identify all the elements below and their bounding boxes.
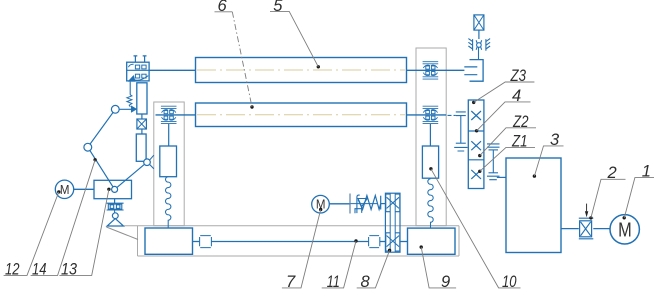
lever link upper: [115, 108, 131, 110]
motor 7 shaft: [329, 203, 350, 205]
svg-text:Z2: Z2: [512, 113, 528, 131]
svg-text:M: M: [618, 220, 632, 242]
rod from hook: [129, 82, 131, 95]
fixed support triangle: [107, 219, 123, 226]
spring to element 10: [428, 179, 433, 228]
svg-text:M: M: [60, 183, 70, 197]
stem under crank box: [114, 199, 116, 204]
hinged support: [468, 39, 490, 51]
joint circle lower: [84, 143, 92, 151]
motor 12: [55, 180, 73, 198]
bearing roller 5 right: [423, 62, 439, 79]
input arrow: [586, 204, 588, 212]
svg-text:7: 7: [286, 273, 296, 291]
motor 1: [610, 215, 639, 244]
svg-text:5: 5: [273, 0, 283, 15]
shaft box3 to coupling: [561, 228, 579, 230]
svg-text:14: 14: [32, 261, 47, 279]
frame: diagonal brace: [106, 227, 138, 240]
damper plates: [464, 67, 477, 75]
leader dots: [57, 65, 626, 252]
clutch spring zigzag: [358, 196, 381, 210]
spring small zigzag: [127, 95, 132, 107]
shaft roller 6 left: [156, 114, 196, 116]
gear block 4: [468, 100, 484, 189]
svg-text:10: 10: [502, 273, 517, 291]
shaft stub: [193, 241, 200, 243]
shaft roller 5 left: [149, 69, 196, 71]
clutch disc bar: [349, 194, 351, 214]
damper bracket: [470, 60, 484, 82]
screw column 8: [385, 193, 400, 252]
link arm upper: [88, 109, 116, 147]
box 9: [408, 228, 456, 254]
spring left vertical: [166, 177, 171, 228]
hanger rod right: [429, 124, 431, 146]
coupling 11: [369, 236, 380, 248]
hanger rod left: [168, 124, 170, 146]
gearbox lower left: [145, 228, 193, 254]
pivot ball: [477, 43, 482, 48]
svg-text:Z3: Z3: [510, 67, 527, 85]
rod lower rect: [136, 134, 146, 161]
friction cone: [358, 199, 367, 213]
link rod-to-crank: [115, 162, 147, 189]
link arm lower: [88, 147, 115, 189]
svg-text:11: 11: [327, 273, 340, 291]
rod to damper: [478, 47, 480, 59]
shaft roller 6 right: [407, 114, 447, 116]
shaft coupling to motor 1: [593, 228, 610, 230]
clutch end bar: [380, 196, 382, 210]
bearing block left of roller 5: [127, 62, 149, 81]
frame: left column: [154, 102, 184, 226]
shaft to box 9: [400, 241, 408, 243]
svg-text:Z1: Z1: [511, 132, 527, 150]
hook wedge under block: [128, 75, 135, 81]
pivot circle rod bottom: [144, 159, 151, 166]
motor 12 shaft: [74, 188, 94, 190]
shaft into box 3: [497, 176, 506, 178]
element 10: [422, 146, 438, 178]
thrust bearing: [107, 203, 124, 213]
gear mesh symbol right: [487, 144, 500, 180]
centerline roller 6: [197, 114, 405, 116]
rod guide rect: [137, 83, 147, 114]
clutch bracket: [357, 195, 360, 213]
pivot fork to frame: [150, 155, 154, 169]
svg-text:12: 12: [5, 261, 20, 279]
motor 7: [312, 195, 330, 213]
bracket above bearing block: [134, 56, 147, 62]
gear mesh symbol left: [454, 112, 467, 151]
nut upper: [386, 194, 400, 212]
svg-text:6: 6: [218, 0, 228, 15]
bearing roller 6 left: [161, 106, 177, 123]
long drive shaft: [211, 241, 368, 243]
arrowhead on lever: [131, 106, 137, 113]
svg-text:1: 1: [642, 162, 651, 180]
crank pin circle: [112, 186, 118, 192]
svg-text:8: 8: [361, 273, 371, 291]
frame: right column: [416, 48, 446, 226]
roller 6: [196, 103, 407, 127]
nut lower: [386, 233, 400, 251]
tension block left: [160, 146, 177, 177]
centerline roller 5: [197, 69, 405, 71]
coupling 2: [579, 218, 594, 239]
crank box 13: [94, 180, 132, 198]
bearing roller 6 right: [423, 106, 439, 123]
svg-text:2: 2: [607, 164, 617, 182]
svg-text:3: 3: [550, 131, 560, 149]
svg-text:13: 13: [61, 261, 78, 279]
svg-text:9: 9: [441, 273, 450, 291]
shaft roller 5 right: [407, 69, 465, 71]
coupling X-box on rod: [137, 114, 147, 134]
roller 5: [196, 58, 407, 83]
weight box top right: [474, 15, 484, 39]
svg-text:4: 4: [512, 87, 521, 105]
frame: base platform: [124, 226, 459, 256]
joint circle upper: [111, 105, 119, 113]
box 3: [506, 158, 561, 253]
coupling left: [200, 236, 212, 248]
clutch shaft through: [350, 203, 378, 205]
support joint circle: [112, 213, 118, 219]
shaft dashed to gear Z: [448, 114, 456, 116]
